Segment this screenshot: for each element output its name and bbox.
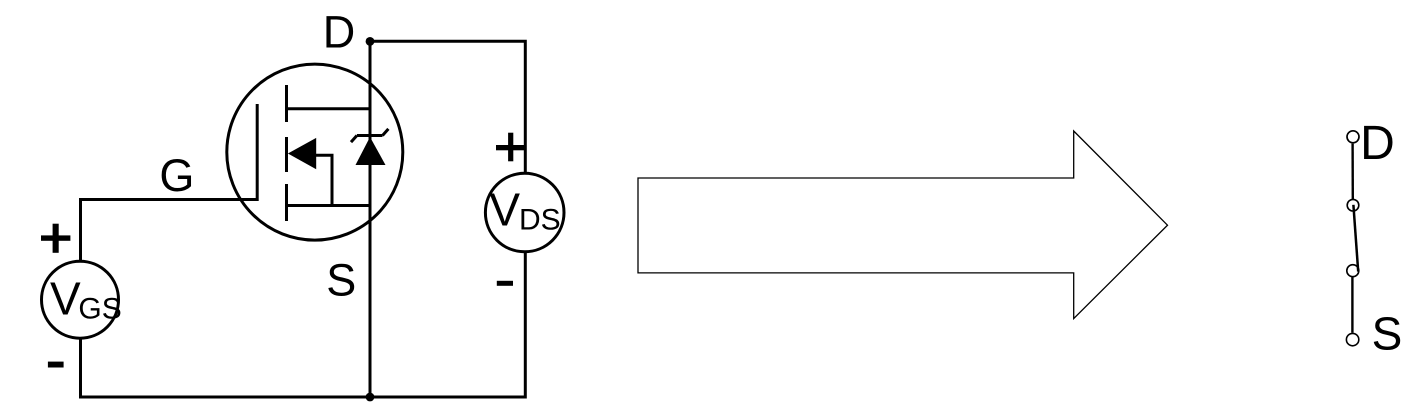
svg-text:GS: GS [78,292,121,325]
transistor Q1: drain connection [287,107,371,110]
arrow: big transition arrow [638,131,1168,319]
diode D1: cathode right hook [383,129,389,136]
diode D1: cathode bar [357,134,383,137]
node: drain node dot [366,37,375,46]
transistor Q1: source connection [287,204,371,207]
svg-text:S: S [326,255,356,306]
switch S1: lower wire [1351,277,1353,333]
switch S1: upper wire [1351,144,1354,200]
wire: gate wire from VGS top to gate bar [81,200,259,262]
wire: top wire from drain node to VDS top lead [370,41,525,172]
transistor Q1: channel dash top [285,85,288,122]
wire: VGS bottom lead, bottom wire, VDS bottom lead [81,253,526,398]
diode D1: body diode triangle [356,137,386,165]
source VGS: plus sign [41,224,70,253]
svg-text:V: V [50,273,81,325]
svg-text:D: D [1360,117,1395,170]
transistor Q1: gate bar [256,104,259,201]
svg-text:DS: DS [519,204,561,237]
transistor Q1: body tail wire [315,155,332,205]
svg-text:V: V [489,184,520,236]
svg-text:S: S [1372,308,1403,360]
transistor Q1: MOSFET body circle [227,64,403,240]
switch S1: terminal circle S [1346,333,1358,345]
source VGS: circle [42,261,119,338]
source VGS: minus sign [48,362,64,368]
svg-text:D: D [323,6,356,57]
transistor Q1: channel dash middle [285,137,288,172]
source VDS: plus sign [496,133,525,162]
source VDS: circle [485,173,564,252]
wire: drain-source vertical [369,41,372,397]
switch S1: blade [1353,205,1358,272]
switch S1: pivot circle [1347,199,1359,211]
transistor Q1: channel dash bottom [285,184,288,221]
transistor Q1: body arrow [288,138,316,169]
source VDS: minus sign [497,281,513,286]
node: source node dot [366,393,375,402]
switch S1: contact circle [1347,265,1359,277]
svg-text:G: G [159,150,194,201]
diode D1: cathode left hook [351,136,357,143]
switch S1: terminal circle D [1347,131,1359,143]
